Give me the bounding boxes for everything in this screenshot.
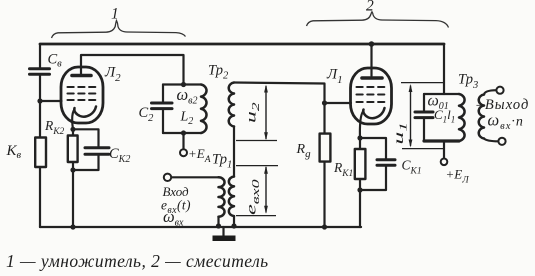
winding eвх0 Тр1 secondary bbox=[229, 177, 234, 217]
node grid Л1 bbox=[322, 100, 327, 105]
dimension u2 bbox=[236, 85, 277, 141]
wire Rg vertical bbox=[323, 103, 325, 134]
resistor Rк1 bbox=[355, 149, 366, 179]
wire Rк2 bottom bbox=[72, 162, 74, 227]
node Rк2/Ск2 bbox=[70, 167, 75, 172]
wire cathode Л1 to Ск1 bbox=[360, 138, 386, 159]
node Rк1/Ск1 bbox=[357, 187, 362, 192]
wire left vertical mid bbox=[39, 76, 41, 138]
wire winding link Тр1 bbox=[233, 127, 235, 177]
svg-text:–Выход: –Выход bbox=[476, 97, 530, 113]
tube Л1 envelope bbox=[351, 68, 392, 124]
wire tank Тр2 left bbox=[162, 85, 164, 103]
tube Л2 envelope bbox=[61, 67, 103, 123]
wire eвх0 bottom bbox=[233, 216, 235, 227]
terminal output top bbox=[496, 87, 503, 94]
capacitor C1 bbox=[415, 112, 433, 118]
node anode Л1 bbox=[369, 41, 375, 47]
resistor Rк2 bbox=[68, 136, 78, 163]
capacitor C2 bbox=[152, 103, 173, 109]
terminal output bottom bbox=[498, 138, 505, 145]
svg-text:Тр1: Тр1 bbox=[212, 152, 232, 171]
wire output bottom bbox=[484, 139, 498, 142]
wire output top bbox=[484, 90, 496, 94]
svg-text:ωвх·n: ωвх·n bbox=[488, 111, 524, 133]
wire anode Л1 bbox=[370, 44, 372, 76]
wire cathode to Rк2 bbox=[72, 129, 74, 135]
wire to +EЛ terminal bbox=[443, 141, 445, 159]
terminal +EA bbox=[180, 149, 187, 156]
inductor L2 bbox=[201, 85, 207, 133]
node grid tap Л2 bbox=[37, 98, 42, 103]
svg-text:Rg: Rg bbox=[296, 142, 312, 160]
wire cathode Л1 lead bbox=[360, 111, 364, 138]
resistor Кв bbox=[35, 138, 46, 168]
winding input Тр1 primary bbox=[219, 177, 225, 216]
svg-text:L2: L2 bbox=[180, 110, 194, 128]
svg-text:RК1: RК1 bbox=[333, 160, 353, 179]
wire grid Л1 bbox=[325, 102, 352, 104]
inductor L1 bbox=[459, 94, 465, 141]
resistor Rg bbox=[320, 134, 331, 162]
dimension u1 bbox=[401, 83, 443, 149]
svg-text:Кв: Кв bbox=[6, 143, 22, 161]
svg-text:u1: u1 bbox=[392, 122, 409, 144]
wire to +EA terminal bbox=[182, 133, 184, 149]
node eвх0 ground bbox=[231, 223, 236, 228]
ground bbox=[222, 227, 224, 236]
wire Ск1 bottom bbox=[360, 166, 386, 190]
wire Ск2 bottom bbox=[73, 155, 99, 170]
wire anode Л2 to tank bbox=[81, 55, 184, 85]
anode plate Л2 bbox=[72, 74, 91, 78]
capacitor Ск1 bbox=[377, 160, 395, 166]
svg-text:CК1: CК1 bbox=[402, 158, 422, 177]
svg-text:Л1: Л1 bbox=[326, 67, 343, 87]
svg-text:2: 2 bbox=[366, 0, 374, 15]
wire grid Л2 bbox=[40, 100, 62, 102]
winding u2 Тр2 secondary bbox=[229, 83, 234, 127]
cathode Л2 bbox=[74, 107, 96, 117]
svg-text:ωв2: ωв2 bbox=[177, 85, 198, 107]
svg-text:Cв: Cв bbox=[48, 52, 63, 70]
svg-text:CК2: CК2 bbox=[109, 146, 130, 165]
grid dashes Л2 bbox=[68, 87, 98, 100]
terminal +EЛ bbox=[441, 159, 448, 166]
svg-text:+EА: +EА bbox=[188, 146, 211, 165]
winding Тр3 secondary bbox=[479, 95, 484, 139]
wire top bus bbox=[40, 43, 444, 46]
wire left vertical lower bbox=[39, 167, 41, 227]
wire input terminal bbox=[171, 176, 218, 178]
node Rg ground bbox=[322, 224, 327, 229]
tank Тр3 bottom bbox=[424, 139, 459, 142]
svg-text:евх0: евх0 bbox=[244, 179, 262, 215]
svg-text:RК2: RК2 bbox=[44, 118, 65, 137]
grid dashes Л1 bbox=[357, 87, 388, 102]
wire cathode junction to Ск2 bbox=[73, 129, 99, 147]
svg-text:1: 1 bbox=[111, 6, 119, 23]
capacitor Cв bbox=[30, 69, 50, 75]
node cathode Л2 bbox=[70, 127, 75, 132]
wire input winding bottom bbox=[217, 217, 219, 227]
brace 2 bbox=[307, 12, 449, 28]
dimension eвх0 bbox=[236, 166, 278, 216]
svg-text:Тр3: Тр3 bbox=[458, 72, 478, 92]
capacitor Ск2 bbox=[85, 148, 109, 155]
wire cathode Л2 lead bbox=[72, 110, 74, 130]
svg-text:Л2: Л2 bbox=[104, 65, 121, 85]
tank Тр3 top bbox=[424, 93, 459, 95]
wire Rк1 bottom bbox=[359, 179, 361, 227]
svg-text:u2: u2 bbox=[244, 102, 262, 123]
wire tank Тр3 left bbox=[423, 94, 425, 111]
node input ground bbox=[216, 223, 221, 228]
tank Тр2 top bbox=[163, 83, 201, 85]
wire left vertical upper bbox=[39, 44, 41, 67]
svg-text:+EЛ: +EЛ bbox=[446, 167, 470, 186]
tank Тр2 bottom bbox=[163, 132, 201, 134]
node cathode Л1 bbox=[357, 135, 362, 140]
wire bottom bus bbox=[40, 226, 361, 228]
wire right vertical bbox=[443, 44, 445, 94]
brace 1 bbox=[52, 21, 186, 39]
node tank Тр2 bottom bbox=[181, 130, 186, 135]
anode plate Л1 bbox=[362, 76, 382, 80]
wire cathode Л1 to Rк1 bbox=[359, 138, 361, 149]
svg-text:Тр2: Тр2 bbox=[208, 63, 229, 82]
node bottom bus left bbox=[70, 224, 75, 229]
terminal input bbox=[164, 174, 171, 181]
svg-text:1 — умножитель, 2 — смеситель: 1 — умножитель, 2 — смеситель bbox=[6, 251, 269, 271]
cathode Л1 bbox=[363, 108, 384, 118]
wire u2 top to grid Л1 bbox=[234, 83, 325, 104]
wire Rg bottom bbox=[323, 162, 325, 227]
node tank Тр2 top bbox=[181, 82, 186, 87]
